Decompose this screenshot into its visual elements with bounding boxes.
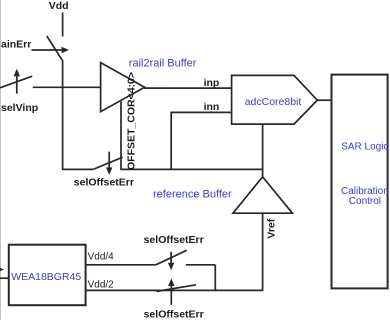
wire Vdd/2 from WEA block to Vref node	[86, 289, 263, 291]
switch selOffsetErr blade (Vdd/2)	[157, 285, 197, 292]
arrowhead gainErr	[62, 47, 70, 53]
wire selOffsetErr control arrow shaft (mid)	[108, 152, 110, 170]
wire selVinp control arrow shaft	[16, 74, 18, 93]
wire inp from buffer output to adcCore8bit	[144, 87, 232, 89]
op-amp U1 rail2rail buffer triangle	[101, 63, 145, 112]
wire selOffsetErr control arrow shaft (Vdd/4)	[170, 252, 172, 265]
switch selOffsetErr blade (Vdd/4)	[156, 250, 187, 264]
svg-text:WEA18BGR45: WEA18BGR45	[11, 271, 81, 283]
block WEA18BGR45 bandgap	[9, 245, 86, 306]
left figure border edge	[0, 0, 2, 320]
arrowhead selVinp (up)	[14, 69, 20, 77]
wire selOffsetErr control arrow shaft (Vdd/2)	[170, 283, 172, 305]
block adcCore8bit pentagon	[232, 75, 318, 124]
switch selOffsetErr blade (mid)	[93, 157, 122, 169]
svg-text:inp: inp	[204, 77, 220, 89]
wire Vdd/4 from WEA block	[86, 264, 156, 266]
wire gainErr control arrow shaft	[32, 49, 65, 51]
svg-text:OFFSET_COR<4:0>: OFFSET_COR<4:0>	[126, 72, 138, 170]
wire OFFSET_COR vertical into buffer underside	[120, 102, 122, 171]
wire Vdd/4 after switch	[186, 264, 215, 266]
wire input to rail2rail buffer	[33, 86, 100, 88]
svg-text:inn: inn	[204, 101, 220, 113]
wire input stub into WEA block	[0, 277, 9, 279]
svg-text:Vdd/4: Vdd/4	[88, 252, 115, 263]
arrowhead selOffsetErr Vdd/4 (down)	[168, 263, 174, 271]
svg-text:SAR Logic: SAR Logic	[341, 141, 388, 152]
svg-text:selVinp: selVinp	[1, 102, 38, 114]
svg-text:selOffsetErr: selOffsetErr	[74, 176, 134, 188]
wire adcCore8bit bottom to reference buffer apex	[262, 124, 264, 177]
wire inn riser	[170, 112, 172, 170]
switch selVinp blade	[0, 76, 32, 88]
wire adcCore8bit output to SAR block	[317, 99, 331, 101]
svg-text:selOffsetErr: selOffsetErr	[144, 234, 204, 246]
svg-text:adcCore8bit: adcCore8bit	[245, 96, 302, 108]
wire bottom bus right segment	[121, 168, 263, 170]
svg-text:Vref: Vref	[266, 218, 278, 238]
op-amp U2 reference buffer triangle	[233, 177, 292, 213]
arrowhead WEA input (right)	[0, 266, 4, 272]
svg-text:Vdd: Vdd	[49, 0, 69, 12]
block SAR Logic / Calibration Control	[332, 75, 388, 289]
wire Vdd vertical stub	[62, 13, 64, 37]
svg-text:selOffsetErr: selOffsetErr	[144, 309, 204, 320]
wire Vref vertical below reference buffer	[262, 213, 264, 291]
arrowhead selOffsetErr mid (down)	[106, 167, 112, 175]
wire inn horizontal to adcCore8bit	[170, 111, 231, 113]
wire main vertical from switch to bottom bus	[62, 60, 64, 170]
wire Vdd/4 drop to Vdd/2 line	[214, 265, 216, 291]
svg-text:Vdd/2: Vdd/2	[88, 280, 115, 291]
svg-text:ainErr: ainErr	[1, 39, 31, 51]
wire bottom bus left segment	[63, 168, 94, 170]
svg-text:rail2rail Buffer: rail2rail Buffer	[129, 57, 197, 69]
svg-text:reference Buffer: reference Buffer	[153, 189, 232, 201]
switch gainErr blade	[47, 36, 62, 60]
arrowhead selOffsetErr Vdd/2 (up)	[168, 278, 174, 286]
svg-text:Control: Control	[349, 196, 381, 207]
